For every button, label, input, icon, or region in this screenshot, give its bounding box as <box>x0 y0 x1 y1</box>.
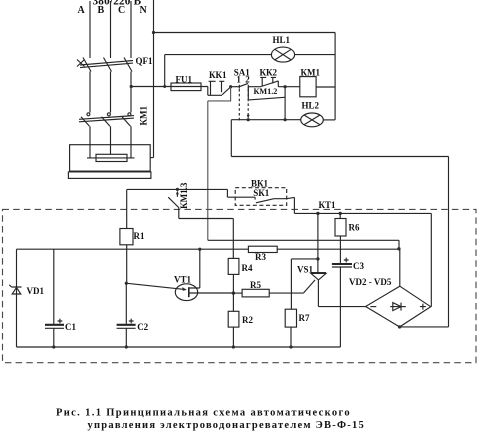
label R3 <box>255 252 266 262</box>
thermal contact SK1 <box>255 197 294 203</box>
label R7 <box>299 313 310 323</box>
resistor R2 <box>228 293 239 347</box>
node KT1 junction 1 <box>316 212 319 215</box>
label C3 <box>353 261 364 271</box>
svg-text:2: 2 <box>245 75 250 85</box>
wire SA1 to KK2 <box>248 86 261 88</box>
node N top junction <box>152 31 155 34</box>
node KM1.2 bottom junction <box>284 118 287 121</box>
svg-text:КТ1: КТ1 <box>319 200 337 210</box>
node C1 bottom junction <box>52 345 55 348</box>
label VS1 <box>297 265 314 275</box>
svg-text:КМ1.2: КМ1.2 <box>254 87 278 96</box>
label VD1 <box>27 286 45 296</box>
rectifier bridge VD2-VD5 <box>366 249 431 327</box>
lamp HL1 <box>271 47 294 62</box>
label VT1 <box>174 274 192 284</box>
node VT1 base junction <box>125 282 128 285</box>
label R2 <box>242 315 253 325</box>
label FU1 <box>176 74 193 84</box>
node bridge top junction <box>397 247 400 250</box>
wire phase C middle <box>130 72 132 113</box>
label KM1.2 <box>254 87 278 96</box>
wire tank corner to KM1.3 row <box>127 189 255 197</box>
label QF1 <box>136 56 153 66</box>
wire VS1 gate <box>303 280 315 293</box>
svg-text:ВК1: ВК1 <box>251 178 269 188</box>
node KK1 output junction <box>229 85 232 88</box>
svg-text:C: C <box>118 5 125 16</box>
node HL1 branch junction <box>163 55 166 88</box>
wire HL2 to right rail <box>323 119 335 121</box>
node C label <box>118 5 125 16</box>
capacitor C3 <box>332 258 352 347</box>
svg-text:HL2: HL2 <box>302 100 320 110</box>
resistor R6 <box>335 213 346 263</box>
svg-text:HL1: HL1 <box>273 35 291 45</box>
resistor R4 <box>228 258 239 293</box>
wire KM1 coil to right rail <box>316 86 335 88</box>
thermal relay contact KK2 <box>260 77 278 86</box>
svg-text:R2: R2 <box>242 315 253 325</box>
node R7 bottom junction <box>289 345 292 348</box>
svg-text:VS1: VS1 <box>297 265 314 275</box>
label KM1 coil <box>301 67 321 77</box>
wire HL2 branch <box>231 119 300 121</box>
label SK1 <box>253 188 270 198</box>
node KM1.2 right junction top <box>284 85 287 88</box>
svg-text:N: N <box>140 5 148 16</box>
switch SA1 pole 1 <box>239 83 249 121</box>
label C1 <box>65 322 76 332</box>
resistor R3 <box>248 246 277 252</box>
wire KM1.3 to R4 chain <box>179 219 234 259</box>
label KK1 <box>209 70 227 80</box>
wire R7 branch <box>291 259 318 309</box>
resistor R1 <box>120 189 133 249</box>
wire N line <box>150 0 153 158</box>
svg-text:SК1: SК1 <box>253 188 270 198</box>
lamp HL2 <box>301 113 324 127</box>
svg-text:QF1: QF1 <box>136 56 153 66</box>
wire KK1 out to SA1 <box>231 86 240 88</box>
svg-text:VT1: VT1 <box>174 274 192 284</box>
node KM1.3 top junction <box>176 188 179 191</box>
node R4 R5 R2 junction <box>232 291 235 294</box>
node SA1 pole2 junction <box>247 118 250 121</box>
wire bottom rail <box>17 346 341 348</box>
label R6 <box>349 222 360 232</box>
wire control dropper to electronics <box>208 87 231 241</box>
svg-text:A: A <box>78 5 86 16</box>
svg-text:КК1: КК1 <box>209 70 227 80</box>
wire HL1 to right rail <box>295 54 336 56</box>
wire KT1 output row <box>294 213 431 306</box>
resistor R5 <box>233 289 303 297</box>
svg-text:C1: C1 <box>65 322 76 332</box>
label 380/220 V (top, cropped) <box>93 0 142 7</box>
label C2 <box>137 322 148 332</box>
label R5 <box>250 280 261 290</box>
svg-text:VD2 - VD5: VD2 - VD5 <box>349 277 392 287</box>
wire N top rail <box>154 32 336 34</box>
wire KK2 to KM1 coil <box>278 86 300 88</box>
svg-text:КМ1: КМ1 <box>139 105 149 125</box>
wire phase C upper <box>130 1 132 58</box>
label HL1 <box>273 35 291 45</box>
svg-text:R4: R4 <box>242 263 253 273</box>
label HL2 <box>302 100 320 110</box>
caption line 2 <box>88 420 366 431</box>
svg-text:R5: R5 <box>250 280 261 290</box>
node KT1 junction 2 <box>339 212 342 215</box>
label R1 <box>134 231 145 241</box>
auxiliary contact KM1.2 <box>248 87 285 120</box>
capacitor C1 <box>45 249 64 347</box>
svg-text:R3: R3 <box>255 252 266 262</box>
svg-text:КМ1.3: КМ1.3 <box>179 182 189 209</box>
wire C tap to fuse <box>131 86 171 88</box>
wire phase B middle <box>110 72 112 113</box>
svg-text:Рис. 1.1 Принципиальная схема: Рис. 1.1 Принципиальная схема автоматиче… <box>56 408 351 419</box>
thyristor VS1 <box>311 213 366 306</box>
zener diode VD1 <box>9 285 21 294</box>
svg-text:VD1: VD1 <box>27 286 45 296</box>
node C tap junction <box>130 85 133 88</box>
wire right rail vertical <box>334 33 336 120</box>
svg-text:B: B <box>98 5 105 16</box>
label KM1.3 (rotated) <box>179 182 189 209</box>
svg-text:управления электроводонагреват: управления электроводонагревателем ЭВ-Ф-… <box>88 420 366 431</box>
node bridge bottom junction <box>398 325 401 328</box>
caption line 1 <box>56 408 351 419</box>
transistor VT1 <box>126 249 233 300</box>
svg-text:FU1: FU1 <box>176 74 193 84</box>
svg-text:КМ1: КМ1 <box>301 67 321 77</box>
node C2 bottom junction <box>125 345 128 348</box>
node R2 bottom junction <box>232 345 235 348</box>
fuse FU1 <box>171 83 201 91</box>
label R4 <box>242 263 253 273</box>
wire A upper dc rail <box>208 240 399 249</box>
wire phase A upper <box>89 1 91 58</box>
wire phase B lower <box>110 126 112 144</box>
thermal relay contact KK1 <box>209 81 231 95</box>
capacitor C2 <box>117 249 136 347</box>
auxiliary contact KM1.3 <box>168 191 179 219</box>
label VD2-VD5 <box>349 277 392 287</box>
wire FU1 to KK1 <box>201 87 222 96</box>
label VK1 <box>251 178 269 188</box>
heater tank <box>68 145 150 179</box>
wire phase B upper <box>110 1 112 58</box>
wire left rail vertical <box>16 249 18 347</box>
label KM1 (rotated) <box>139 105 149 125</box>
wire phase A lower <box>89 126 91 144</box>
label SA1 <box>234 68 251 78</box>
node B label <box>98 5 105 16</box>
label SA1 pole 2 <box>245 75 250 85</box>
contactor KM1 main contacts <box>79 113 134 127</box>
node N label <box>140 5 148 16</box>
sensor box VK1 <box>235 188 287 206</box>
wire HL1 branch left <box>165 54 272 56</box>
svg-text:R7: R7 <box>299 313 310 323</box>
svg-text:R6: R6 <box>349 222 360 232</box>
wire B lower dc rail <box>17 248 399 250</box>
wire control to bridge AC feed <box>231 120 448 327</box>
wire SK1 to KT1 node <box>293 197 295 213</box>
label KT1 <box>319 200 337 210</box>
svg-text:1: 1 <box>236 75 241 85</box>
svg-text:C3: C3 <box>353 261 364 271</box>
node VS1 cathode junction <box>316 257 319 260</box>
wire phase A middle <box>89 72 91 113</box>
label SA1 pole 1 <box>236 75 241 85</box>
node A label <box>78 5 86 16</box>
label KK2 <box>260 67 278 77</box>
contactor coil KM1 <box>300 77 316 97</box>
circuit breaker QF1 <box>77 58 133 72</box>
resistor R7 <box>285 309 296 347</box>
node VT1 collector junction <box>198 248 201 251</box>
wire phase C lower <box>130 126 132 144</box>
svg-text:C2: C2 <box>137 322 148 332</box>
svg-text:R1: R1 <box>134 231 145 241</box>
dashed box thermostat unit KT1 <box>3 209 477 362</box>
svg-text:КК2: КК2 <box>260 67 278 77</box>
heating element EK <box>87 145 135 162</box>
